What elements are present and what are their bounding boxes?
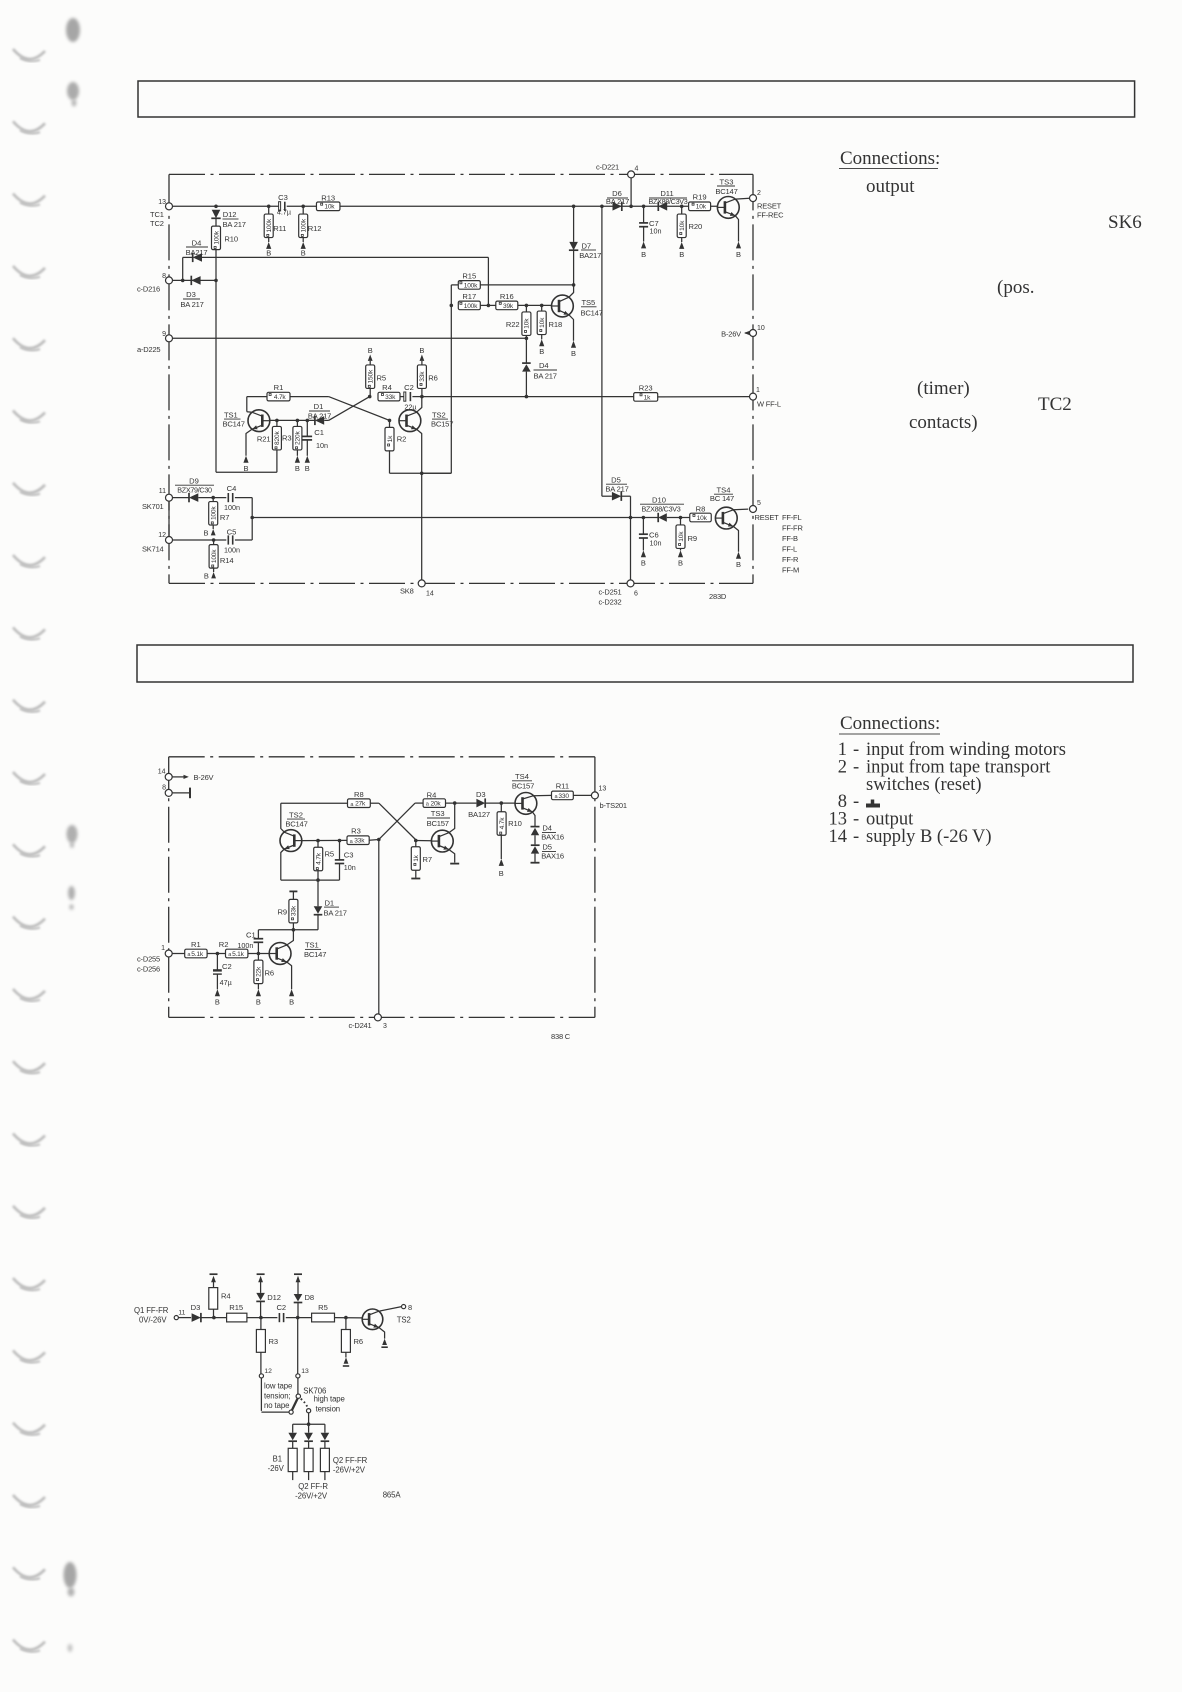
svg-text:D5: D5 — [611, 475, 621, 484]
wire cross-couple R1 to TS2 base — [290, 397, 390, 421]
wire lower rail — [252, 516, 690, 520]
resistor R11 c2 — [552, 782, 592, 800]
capacitor C7 — [639, 206, 661, 259]
svg-text:838 C: 838 C — [551, 1032, 571, 1041]
svg-text:Connections:: Connections: — [840, 148, 940, 169]
node pin 4 c-D221 — [596, 163, 639, 207]
svg-text:8: 8 — [162, 785, 166, 792]
resistor R7 — [203, 498, 229, 538]
svg-text:33k: 33k — [385, 394, 396, 401]
svg-text:RESET: RESET — [757, 202, 782, 211]
resistor R18 — [537, 305, 562, 356]
diode D8 c3 — [294, 1274, 314, 1317]
circuit 2 border (dash-dot frame) — [169, 757, 595, 1018]
svg-text:11: 11 — [178, 1310, 185, 1317]
svg-text:BC147: BC147 — [223, 420, 245, 429]
svg-text:220k: 220k — [295, 431, 302, 445]
svg-text:865A: 865A — [383, 1491, 402, 1500]
svg-text:c-D241: c-D241 — [349, 1021, 372, 1030]
svg-text:TS2: TS2 — [397, 1316, 411, 1325]
resistor R16 — [496, 292, 552, 310]
svg-text:13: 13 — [599, 786, 607, 793]
resistor R14 — [204, 540, 234, 580]
svg-text:10k: 10k — [524, 318, 531, 329]
svg-text:14: 14 — [426, 591, 434, 598]
svg-text:1k: 1k — [644, 394, 651, 401]
svg-text:TS3: TS3 — [720, 177, 734, 186]
svg-text:R20: R20 — [689, 222, 703, 231]
svg-text:100k: 100k — [213, 230, 220, 244]
resistor R3 flipflop — [282, 420, 302, 472]
node pin 3 c-D241 — [349, 1014, 388, 1030]
svg-text:TS1: TS1 — [305, 941, 319, 950]
svg-text:33k: 33k — [354, 838, 365, 845]
svg-text:C1: C1 — [246, 931, 256, 940]
text SK6 — [1108, 212, 1142, 233]
wire pin 3 vertical — [378, 840, 380, 1014]
circuit 1 border (dash-dot frame) — [169, 174, 753, 583]
svg-text:100k: 100k — [464, 282, 478, 289]
svg-text:FF-REC: FF-REC — [757, 211, 784, 220]
svg-text:Q2 FF-R: Q2 FF-R — [298, 1482, 328, 1491]
text SK706 — [303, 1386, 326, 1395]
svg-text:10k: 10k — [679, 220, 686, 231]
svg-text:9: 9 — [162, 331, 166, 338]
svg-text:B: B — [736, 250, 741, 259]
resistor R4 c2 — [423, 791, 476, 808]
svg-text:R22: R22 — [506, 320, 520, 329]
svg-text:10n: 10n — [344, 863, 356, 872]
svg-text:BA217: BA217 — [186, 248, 208, 257]
svg-text:R4: R4 — [221, 1291, 231, 1300]
svg-text:(timer): (timer) — [917, 378, 970, 399]
svg-text:BA217: BA217 — [579, 251, 601, 260]
resistor R7 c2 — [411, 841, 432, 879]
svg-text:20k: 20k — [430, 800, 441, 807]
svg-text:FF-FL: FF-FL — [782, 513, 801, 522]
svg-text:c-D255: c-D255 — [137, 955, 160, 964]
svg-text:TS4: TS4 — [515, 772, 529, 781]
svg-text:c-D216: c-D216 — [137, 285, 160, 294]
transistor TS1 — [223, 410, 270, 473]
svg-text:10n: 10n — [316, 441, 328, 450]
svg-text:B: B — [266, 249, 271, 258]
svg-text:-26V/+2V: -26V/+2V — [333, 1466, 366, 1475]
resistor R12 — [299, 206, 322, 257]
text output — [866, 176, 915, 197]
svg-text:R12: R12 — [308, 224, 322, 233]
text Connections heading c2 — [839, 713, 940, 734]
resistor R6 — [417, 346, 437, 397]
svg-text:4.7k: 4.7k — [274, 394, 287, 401]
svg-text:D8: D8 — [305, 1293, 315, 1302]
diode D4 — [183, 238, 208, 280]
svg-text:10k: 10k — [696, 204, 707, 211]
node pin 13 TC1 TC2 — [150, 199, 173, 228]
diode B1 branch — [288, 1433, 297, 1449]
svg-text:B: B — [419, 346, 424, 355]
svg-text:W FF-L: W FF-L — [757, 400, 781, 409]
svg-text:283D: 283D — [709, 592, 727, 601]
svg-text:BC147: BC147 — [285, 820, 307, 829]
svg-text:B: B — [571, 349, 576, 358]
svg-text:R3: R3 — [269, 1337, 279, 1346]
svg-text:13: 13 — [301, 1368, 309, 1375]
svg-text:R11: R11 — [556, 782, 569, 791]
diode D4 c2 — [531, 824, 564, 845]
resistor Q2 FF-FR — [320, 1448, 367, 1480]
node pin 6 c-D251 c-D232 — [599, 580, 639, 607]
svg-text:R3: R3 — [351, 827, 361, 836]
svg-text:R3: R3 — [282, 433, 292, 442]
svg-text:150k: 150k — [368, 369, 375, 383]
resistor R15 — [451, 271, 575, 289]
capacitor C6 — [639, 518, 662, 568]
svg-text:R18: R18 — [549, 320, 563, 329]
svg-text:R2: R2 — [219, 940, 229, 949]
svg-text:SK714: SK714 — [142, 545, 164, 554]
svg-text:BA127: BA127 — [468, 810, 490, 819]
svg-text:D1: D1 — [325, 898, 335, 907]
svg-text:4: 4 — [635, 166, 639, 173]
diode D1 — [308, 402, 331, 425]
node pin 1 W FF-L — [750, 387, 781, 409]
transistor TS2 c2 — [280, 803, 308, 880]
text contacts) — [909, 412, 978, 433]
transistor TS5 — [552, 285, 603, 358]
resistor R6 c3 — [341, 1318, 363, 1366]
capacitor C1 — [303, 420, 329, 472]
svg-text:B: B — [289, 998, 294, 1007]
transistor TS1 c2 — [269, 930, 326, 1007]
svg-text:a-D225: a-D225 — [137, 345, 160, 354]
svg-text:1k: 1k — [413, 854, 420, 861]
label 865A — [383, 1491, 402, 1500]
svg-text:R7: R7 — [423, 855, 433, 864]
svg-text:B: B — [641, 250, 646, 259]
node pin 14 B-26V — [158, 769, 214, 783]
svg-text:10k: 10k — [678, 531, 685, 542]
resistor R21 — [257, 420, 282, 472]
svg-text:12: 12 — [264, 1368, 272, 1375]
wire pin12 row — [173, 538, 227, 542]
resistor R13 — [316, 193, 340, 210]
svg-text:4.7k: 4.7k — [499, 817, 506, 830]
svg-text:10k: 10k — [697, 515, 708, 522]
svg-text:D3: D3 — [186, 290, 196, 299]
svg-text:10k: 10k — [324, 204, 335, 211]
svg-text:100k: 100k — [464, 303, 478, 310]
svg-text:RESET: RESET — [755, 513, 780, 522]
resistor R9 c2 — [277, 891, 297, 929]
svg-text:SK701: SK701 — [142, 502, 164, 511]
svg-text:R5: R5 — [377, 373, 387, 382]
svg-text:R10: R10 — [224, 235, 238, 244]
svg-text:1: 1 — [756, 387, 760, 394]
svg-text:C2: C2 — [404, 383, 414, 392]
svg-text:BC147: BC147 — [304, 950, 326, 959]
diode Q2 FF-FR branch — [321, 1433, 330, 1449]
node pin 13 c3 — [296, 1318, 309, 1378]
svg-text:R11: R11 — [273, 224, 286, 233]
svg-text:R7: R7 — [220, 513, 230, 522]
svg-text:R10: R10 — [508, 819, 522, 828]
svg-text:R15: R15 — [229, 1303, 243, 1312]
svg-text:R9: R9 — [277, 907, 287, 916]
node pin 2 RESET FF-REC — [750, 190, 785, 220]
resistor R5 c3 — [312, 1303, 362, 1322]
svg-text:Q1 FF-FR: Q1 FF-FR — [134, 1306, 169, 1315]
wire pin 1 rail — [172, 952, 269, 956]
svg-text:10k: 10k — [539, 317, 546, 328]
svg-text:D4: D4 — [539, 361, 549, 370]
svg-text:-26V: -26V — [268, 1464, 285, 1473]
svg-text:1: 1 — [161, 945, 165, 952]
title bar 1 — [138, 81, 1135, 117]
svg-text:high tape: high tape — [314, 1395, 345, 1404]
svg-text:R17: R17 — [462, 292, 476, 301]
svg-text:100n: 100n — [224, 545, 240, 554]
wire switch output — [293, 1413, 325, 1433]
wire D5 to pin 6 — [630, 518, 632, 580]
node pin 5 RESET FF list — [750, 500, 804, 575]
svg-text:B: B — [679, 250, 684, 259]
wire D6 junction down to D5 — [601, 206, 603, 496]
resistor R10 — [212, 218, 239, 249]
svg-text:8: 8 — [162, 273, 166, 280]
svg-text:4.7µ: 4.7µ — [277, 208, 291, 217]
text (pos. — [997, 277, 1034, 298]
transistor TS2 — [399, 397, 453, 474]
svg-text:0V/-26V: 0V/-26V — [139, 1316, 167, 1325]
svg-text:B: B — [215, 998, 220, 1007]
svg-text:tension: tension — [316, 1404, 340, 1413]
resistor R6 c2 — [254, 954, 274, 1007]
svg-text:BA 217: BA 217 — [223, 220, 246, 229]
node pin 14 SK8 — [400, 580, 434, 598]
svg-text:FF-FR: FF-FR — [782, 524, 803, 533]
svg-text:c-D232: c-D232 — [599, 598, 622, 607]
svg-text:Connections:: Connections: — [840, 713, 940, 734]
title bar 2 — [137, 645, 1133, 682]
resistor R5 c2 — [314, 841, 334, 881]
svg-text:BA 217: BA 217 — [605, 485, 628, 494]
diode D4 BA217 (lower) — [522, 338, 557, 396]
svg-text:D12: D12 — [267, 1293, 281, 1302]
resistor R19 — [689, 192, 711, 210]
svg-text:-: - — [853, 758, 859, 778]
capacitor C3 c2 — [335, 841, 356, 881]
transistor TS4 c2 — [512, 772, 552, 827]
text low tape tension no tape — [264, 1382, 292, 1411]
svg-text:BC147: BC147 — [715, 187, 737, 196]
transistor TS4 — [710, 485, 748, 569]
diode D10 — [640, 495, 684, 522]
capacitor C2 c3 — [276, 1303, 311, 1322]
resistor R8 lower — [690, 504, 712, 522]
svg-text:1k: 1k — [387, 435, 394, 442]
svg-text:C5: C5 — [227, 528, 237, 537]
svg-text:R19: R19 — [693, 192, 707, 201]
svg-text:33k: 33k — [419, 371, 426, 382]
svg-text:D12: D12 — [223, 210, 237, 219]
svg-text:12: 12 — [158, 532, 166, 539]
resistor R2 flipflop — [385, 419, 406, 474]
resistor R23 — [634, 384, 750, 402]
svg-text:R1: R1 — [191, 940, 201, 949]
transistor TS2 c3 — [362, 1307, 411, 1348]
wire C4/C5 junction column — [250, 498, 254, 540]
svg-text:TC2: TC2 — [150, 219, 164, 228]
svg-text:100k: 100k — [301, 218, 308, 232]
svg-text:BC157: BC157 — [512, 781, 534, 790]
svg-text:BAX16: BAX16 — [541, 852, 564, 861]
node pin 12 SK714 — [142, 532, 173, 554]
svg-text:C3: C3 — [344, 850, 354, 859]
svg-text:BC157: BC157 — [427, 819, 449, 828]
svg-text:B1: B1 — [273, 1454, 283, 1463]
label 838 C — [551, 1032, 571, 1041]
wire cross-couple D1 to R4 node — [324, 395, 371, 421]
svg-text:100k: 100k — [266, 218, 273, 232]
resistor R10 c2 — [497, 803, 522, 878]
svg-text:TS1: TS1 — [224, 410, 238, 419]
svg-text:TS3: TS3 — [431, 809, 445, 818]
svg-text:D5: D5 — [542, 843, 552, 852]
svg-text:R6: R6 — [265, 969, 275, 978]
text list line 14 — [829, 827, 992, 847]
wire R15 left down — [422, 285, 453, 473]
svg-text:TC2: TC2 — [1038, 394, 1072, 415]
text list line 1 — [838, 740, 1066, 760]
text (timer) — [917, 378, 970, 399]
svg-text:D7: D7 — [582, 241, 592, 250]
svg-text:D3: D3 — [191, 1303, 201, 1312]
capacitor C1 c2 — [237, 930, 263, 954]
wire R10 to R21 bottom — [216, 250, 277, 472]
svg-text:B: B — [736, 560, 741, 569]
node pin 8 contact — [162, 785, 190, 799]
wire pin 9 — [173, 337, 529, 341]
resistor R4 flipflop — [378, 383, 404, 401]
svg-text:Q2 FF-FR: Q2 FF-FR — [333, 1456, 368, 1465]
svg-text:SK6: SK6 — [1108, 212, 1142, 233]
svg-text:27k: 27k — [355, 801, 366, 808]
svg-text:BZX88/C3V3: BZX88/C3V3 — [642, 504, 681, 513]
svg-text:C2: C2 — [222, 962, 232, 971]
svg-text:B: B — [256, 998, 261, 1007]
svg-text:D3: D3 — [476, 790, 486, 799]
transistor TS3 c2 — [414, 803, 459, 864]
svg-text:R23: R23 — [639, 384, 653, 393]
svg-text:FF-B: FF-B — [782, 534, 798, 543]
svg-text:R1: R1 — [274, 383, 284, 392]
node pin 10 B-26V — [721, 325, 765, 339]
svg-text:10n: 10n — [650, 227, 662, 236]
diode D5 c2 — [531, 843, 564, 863]
wire pin13 rail — [173, 205, 718, 209]
svg-text:R21: R21 — [257, 434, 271, 443]
diode D3 c3 — [178, 1303, 226, 1322]
svg-text:C2: C2 — [276, 1303, 286, 1312]
svg-text:BA 217: BA 217 — [324, 909, 347, 918]
svg-text:-: - — [853, 827, 859, 847]
resistor R17 — [458, 292, 495, 310]
svg-text:-26V/+2V: -26V/+2V — [295, 1492, 328, 1501]
text list line 13 — [829, 810, 915, 830]
wire emitter rail to SK8 — [390, 472, 452, 580]
svg-text:10n: 10n — [650, 538, 662, 547]
svg-text:11: 11 — [159, 488, 166, 495]
svg-text:13: 13 — [158, 199, 166, 206]
svg-text:14: 14 — [829, 827, 848, 847]
svg-text:820k: 820k — [274, 431, 281, 445]
node pin 8 c-D216 — [137, 273, 173, 294]
svg-text:D4: D4 — [192, 238, 202, 247]
svg-text:B: B — [295, 464, 300, 473]
node pin 8 c3 — [402, 1303, 413, 1312]
svg-text:100n: 100n — [224, 503, 240, 512]
svg-text:no tape: no tape — [264, 1401, 289, 1410]
text list line 2 — [838, 758, 1052, 778]
resistor R4 c3 — [209, 1274, 231, 1317]
resistor B1 -26V — [268, 1448, 298, 1480]
resistor Q2 FF-R — [295, 1448, 328, 1500]
diode D7 — [569, 206, 601, 285]
svg-text:BC 147: BC 147 — [710, 494, 734, 503]
diode Q2 FF-R branch — [304, 1433, 313, 1449]
resistor R2 c2 — [219, 940, 248, 958]
svg-text:C3: C3 — [278, 193, 288, 202]
svg-text:B: B — [499, 869, 504, 878]
wire R3 diagonal to R4 — [379, 803, 424, 839]
wire pin 8 — [173, 279, 218, 283]
resistor R1 c2 — [185, 940, 207, 958]
svg-text:B: B — [203, 528, 208, 537]
svg-text:FF-L: FF-L — [782, 545, 797, 554]
node pin 11 c3 — [174, 1310, 185, 1320]
resistor R9 lower — [676, 518, 697, 568]
svg-text:supply B (-26 V): supply B (-26 V) — [866, 827, 992, 847]
svg-text:C4: C4 — [227, 484, 237, 493]
svg-text:B: B — [678, 559, 683, 568]
svg-text:BA 217: BA 217 — [308, 412, 331, 421]
svg-text:47µ: 47µ — [220, 978, 232, 987]
svg-text:D1: D1 — [314, 402, 324, 411]
svg-text:R16: R16 — [500, 292, 514, 301]
svg-text:tension;: tension; — [264, 1391, 291, 1400]
svg-text:BA 217: BA 217 — [534, 371, 557, 380]
svg-text:BZX88/C3V3: BZX88/C3V3 — [649, 197, 688, 206]
svg-text:B-26V: B-26V — [721, 330, 741, 339]
svg-text:TS2: TS2 — [289, 810, 303, 819]
wire collector node rail — [258, 928, 318, 932]
svg-text:C1: C1 — [314, 428, 324, 437]
text Q1 FF-FR label — [134, 1306, 169, 1325]
svg-text:330: 330 — [558, 793, 569, 800]
svg-text:R5: R5 — [325, 849, 335, 858]
svg-text:c-D221: c-D221 — [596, 163, 619, 172]
svg-text:R14: R14 — [220, 556, 234, 565]
svg-text:5: 5 — [757, 500, 761, 507]
wire pin11 row — [198, 496, 226, 500]
svg-text:contacts): contacts) — [909, 412, 978, 433]
diode D12 c3 — [256, 1274, 281, 1317]
text TC2 — [1038, 394, 1072, 415]
node pin 9 a-D225 — [137, 331, 173, 354]
svg-text:R5: R5 — [318, 1303, 328, 1312]
svg-text:22k: 22k — [256, 966, 263, 977]
